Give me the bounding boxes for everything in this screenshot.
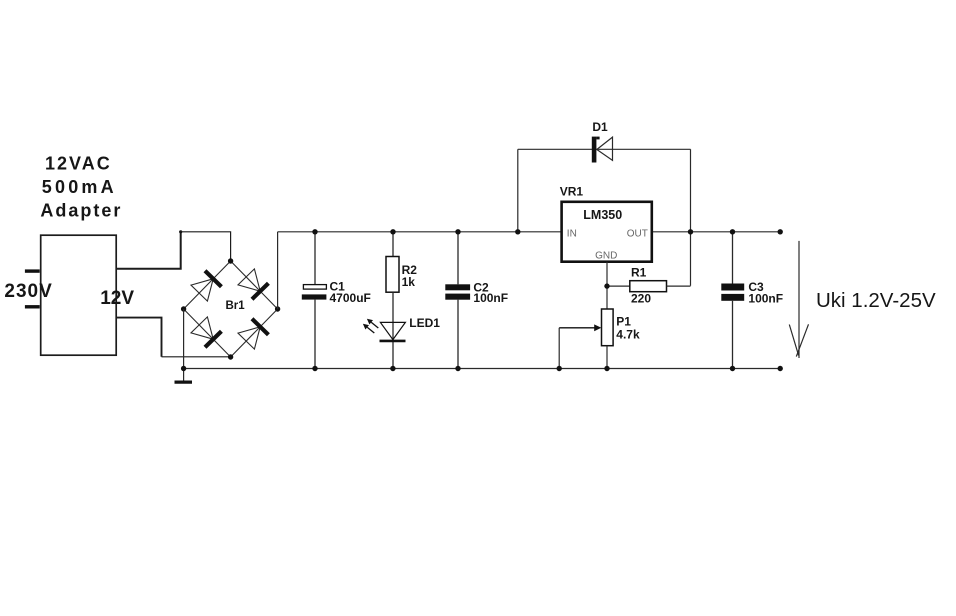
svg-text:R1: R1 [631, 266, 647, 280]
capacitor C2 [445, 232, 470, 369]
svg-text:GND: GND [595, 251, 617, 262]
resistor R1 [607, 281, 691, 292]
230V terminal stub upper [25, 269, 40, 272]
svg-text:LED1: LED1 [409, 316, 440, 330]
wire GND pin down [606, 262, 608, 309]
ground [175, 381, 193, 384]
230V terminal stub lower [25, 305, 40, 308]
bridge diode top-left [191, 271, 221, 301]
top bus wire VR1 OUT to right end [652, 231, 780, 233]
wire bridge right node up to top bus [277, 232, 279, 309]
top bus wire to VR1 IN [278, 231, 562, 233]
svg-text:IN: IN [567, 229, 577, 240]
adapter box [41, 235, 117, 355]
svg-text:12VAC: 12VAC [45, 153, 112, 173]
wire to bridge top node [181, 232, 231, 261]
bridge node dots [228, 258, 233, 263]
svg-text:P1: P1 [616, 314, 631, 328]
wire adapter bottom output [116, 318, 161, 357]
LED1 [363, 319, 406, 341]
svg-text:Br1: Br1 [226, 300, 246, 312]
svg-text:Uki 1.2V-25V: Uki 1.2V-25V [816, 289, 936, 312]
svg-text:100nF: 100nF [748, 291, 783, 305]
svg-text:100nF: 100nF [473, 291, 508, 305]
svg-text:220: 220 [631, 292, 651, 306]
wire to bridge bottom node [162, 356, 231, 358]
svg-text:Adapter: Adapter [40, 201, 122, 221]
bottom bus wire [184, 368, 781, 370]
bridge diode top-right [238, 269, 268, 299]
resistor R2 [386, 232, 399, 369]
wire adapter top output to bridge [116, 232, 181, 269]
svg-text:12V: 12V [100, 288, 134, 309]
svg-text:OUT: OUT [627, 229, 648, 240]
junction dots top bus [312, 229, 317, 234]
svg-text:VR1: VR1 [560, 185, 584, 199]
svg-text:4700uF: 4700uF [330, 291, 371, 305]
wire left node to ground [183, 309, 185, 381]
svg-text:230V: 230V [4, 281, 52, 302]
diode D1 loop [518, 137, 691, 286]
corner dot adapter top wire [179, 230, 182, 233]
bridge diode bottom-left [191, 317, 221, 347]
svg-text:1k: 1k [402, 275, 416, 289]
svg-text:4.7k: 4.7k [616, 328, 640, 342]
capacitor C3 [721, 232, 744, 369]
capacitor C1 [302, 232, 327, 369]
svg-text:D1: D1 [592, 120, 608, 134]
output arrow [789, 241, 808, 358]
junction dots bottom bus [181, 366, 186, 371]
svg-text:500mA: 500mA [42, 177, 117, 197]
bridge rectifier Br1 diamond edges [184, 261, 278, 357]
transformer label 12VAC 500mA Adapter [40, 153, 122, 220]
potentiometer P1 [559, 309, 613, 369]
svg-text:LM350: LM350 [583, 208, 622, 222]
bridge diode bottom-right [238, 319, 268, 349]
junction dot GND R1 P1 [604, 283, 609, 288]
